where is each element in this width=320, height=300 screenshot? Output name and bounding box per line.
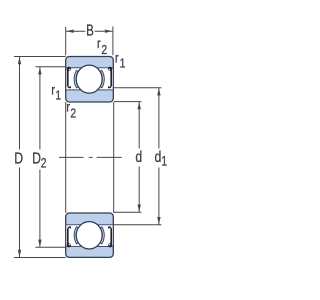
dimension B extension line left: [65, 27, 67, 55]
dimension D extension line bottom: [14, 257, 66, 259]
svg-text:1: 1: [120, 57, 126, 71]
dimension B line + arrows: [66, 30, 85, 32]
shield left top curl: [67, 67, 71, 71]
svg-text:d: d: [135, 149, 142, 167]
svg-text:D: D: [32, 150, 41, 168]
bore silhouette line left: [65, 102, 67, 213]
ball: [76, 65, 102, 93]
top bearing cross-section: [66, 57, 114, 103]
svg-text:2: 2: [41, 155, 47, 171]
dimension D2 line + arrows: [39, 67, 41, 150]
svg-text:2: 2: [70, 107, 76, 121]
centerline (axis, dash-dot): [59, 156, 84, 158]
svg-text:d: d: [154, 149, 161, 167]
svg-text:2: 2: [101, 43, 107, 57]
svg-text:D: D: [14, 150, 23, 168]
shield right bottom foot: [109, 85, 111, 87]
shield left plate: [67, 70, 69, 86]
outer ring shoulder line: [66, 67, 81, 69]
dimension d1 extension line bottom: [114, 224, 161, 226]
bore silhouette line right: [113, 102, 115, 213]
dimension D2 extension line bottom: [35, 246, 65, 248]
ring land crescent right: [100, 70, 104, 88]
white cavity between rings: [66, 68, 112, 90]
bearing ring section body (blue): [66, 57, 114, 103]
svg-text:1: 1: [55, 88, 61, 102]
dimension d extension line top: [114, 101, 142, 103]
dimension d extension line bottom: [114, 211, 142, 213]
dimension d1 extension line top: [114, 87, 161, 89]
shield right plate: [110, 70, 112, 86]
dimension B extension line right: [112, 27, 114, 56]
ring land crescent left: [74, 70, 78, 88]
dimension D2 extension line top: [35, 66, 65, 68]
svg-text:r: r: [115, 51, 119, 66]
bottom bearing cross-section (mirrored): [66, 213, 114, 257]
shield left bottom foot: [68, 85, 70, 87]
inner ring shoulder line: [66, 89, 81, 91]
dimension d line + arrows: [138, 102, 140, 149]
dimension D line + arrows: [19, 57, 21, 150]
svg-text:1: 1: [161, 153, 167, 169]
svg-text:B: B: [86, 22, 94, 39]
shield right top curl: [108, 67, 112, 71]
dimension d1 line + arrows: [158, 88, 160, 149]
dimension D extension line top: [14, 56, 66, 58]
svg-text:r: r: [97, 36, 101, 51]
